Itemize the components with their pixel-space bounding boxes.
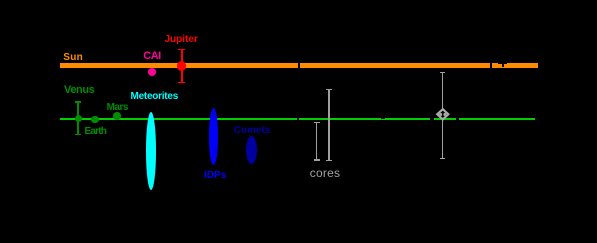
diamond error bar xyxy=(442,72,444,158)
top notch in orange line x=497-507 xyxy=(498,63,508,64)
IDPs ellipse xyxy=(209,108,219,165)
diamond marker xyxy=(435,108,451,121)
Venus data point xyxy=(75,115,82,122)
Earth data point xyxy=(91,116,99,124)
small gap in green line at x=298 xyxy=(297,118,299,120)
Jupiter data point xyxy=(177,61,186,70)
Meteorites ellipse xyxy=(146,112,156,190)
green terrestrial line xyxy=(60,118,535,120)
gap in orange line at x=490 xyxy=(490,63,492,68)
gap in orange line at x=503 xyxy=(502,63,504,67)
Meteorites label xyxy=(131,92,179,102)
orange protosolar line xyxy=(60,63,537,68)
Jupiter label xyxy=(165,35,198,45)
Sun label xyxy=(63,53,83,63)
Venus label xyxy=(64,85,94,96)
cores label xyxy=(310,167,340,179)
Mars label xyxy=(107,103,128,113)
cores left error bar xyxy=(316,122,317,161)
Earth label xyxy=(85,127,107,137)
Comets ellipse xyxy=(246,136,257,164)
Jupiter error bar xyxy=(181,49,183,84)
gap in green line at x=457 xyxy=(456,118,459,120)
Comets label xyxy=(234,126,271,136)
gap in orange line at x=298 xyxy=(298,63,300,68)
CAI label xyxy=(143,51,160,62)
notch in green line at x=382 xyxy=(381,118,384,119)
CAI data point xyxy=(148,68,156,76)
cores right error bar xyxy=(328,89,329,161)
Mars data point xyxy=(113,112,121,120)
gap in green line at x=431 xyxy=(430,118,434,120)
IDPs label xyxy=(204,171,226,181)
Venus error bar xyxy=(77,102,79,136)
